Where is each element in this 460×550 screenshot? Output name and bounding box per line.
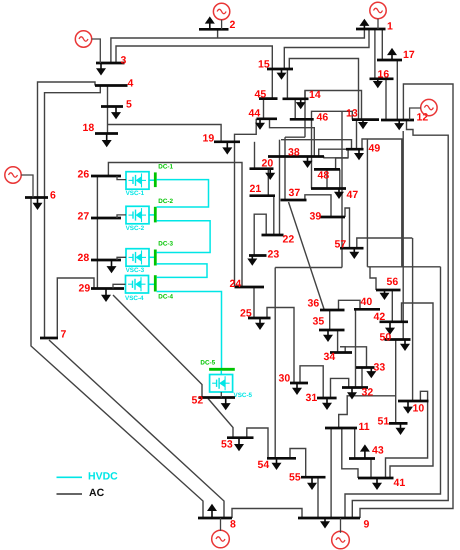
svg-text:VSC-5: VSC-5	[234, 392, 253, 399]
wire bus49 left link	[281, 140, 352, 150]
load arrow bus 49	[358, 149, 360, 154]
wire bus31-bus32	[331, 378, 349, 398]
svg-text:51: 51	[378, 416, 390, 428]
wire bus44-bus24	[235, 119, 257, 287]
converter VSC-1	[126, 172, 149, 190]
bus 33	[356, 366, 375, 369]
load arrow bus 14	[300, 99, 302, 103]
load arrow bus 18	[106, 134, 108, 142]
load arrow bus 50	[404, 340, 406, 345]
svg-text:31: 31	[306, 392, 318, 404]
svg-text:32: 32	[362, 387, 374, 399]
wire bus56 riser to node	[370, 267, 376, 290]
bus 2	[199, 28, 229, 31]
wire bus25-bus30	[267, 308, 294, 384]
load arrow bus 25	[259, 318, 261, 324]
hvdc link DC-3 to DC-4	[157, 264, 207, 278]
load arrow bus 30	[296, 383, 298, 389]
dc bus DC-5	[209, 368, 235, 371]
load arrow bus 17 (up)	[391, 54, 393, 60]
load arrow bus 9	[324, 518, 326, 522]
bus 48	[314, 168, 340, 171]
svg-text:46: 46	[317, 112, 329, 124]
bus 53	[227, 436, 254, 439]
wire bus12-bus16	[385, 79, 387, 120]
converter VSC-4	[126, 276, 149, 294]
generator G8	[212, 530, 230, 548]
svg-text:48: 48	[318, 170, 330, 182]
bus 44	[257, 117, 278, 120]
svg-text:VSC-1: VSC-1	[126, 190, 145, 197]
bus 12	[381, 119, 414, 122]
load arrow bus 31	[326, 398, 328, 404]
wire bus12-bus17	[396, 60, 398, 120]
load arrow bus 13	[362, 120, 364, 123]
svg-text:16: 16	[378, 69, 390, 81]
bus 19	[214, 140, 240, 143]
svg-text:4: 4	[128, 78, 134, 90]
load arrow bus 19	[226, 142, 228, 149]
hvdc link DC-1 to DC-2	[157, 180, 209, 207]
load arrow bus 20	[269, 169, 271, 174]
bus 38	[268, 155, 324, 158]
svg-text:44: 44	[249, 108, 261, 120]
svg-text:20: 20	[262, 158, 274, 170]
svg-text:9: 9	[364, 519, 370, 531]
svg-text:26: 26	[78, 169, 90, 181]
wire bus1-bus15	[284, 29, 369, 69]
bus 42	[380, 320, 409, 323]
bus 52	[199, 396, 236, 399]
wire bus41/bus9 lower-right wrap	[345, 267, 441, 518]
hvdc link DC-4 to DC-5	[157, 292, 222, 369]
wire bus8-bus9	[232, 509, 302, 519]
bus 15	[267, 68, 293, 71]
svg-text:53: 53	[221, 439, 233, 451]
wire bus37-bus38	[284, 137, 286, 200]
wire bus15-bus45	[271, 69, 273, 99]
svg-text:40: 40	[361, 296, 373, 308]
wire bus57 link to right vertical	[357, 238, 413, 248]
wire bus22-bus38 (long middle vertical)	[279, 140, 281, 235]
svg-text:45: 45	[255, 89, 267, 101]
wire bus10-bus41 (right wrap)	[386, 391, 428, 478]
bus 25	[248, 317, 271, 320]
svg-text:DC-3: DC-3	[158, 241, 173, 248]
load arrow bus 54	[276, 458, 278, 464]
svg-text:AC: AC	[89, 487, 105, 499]
generator G3	[75, 31, 91, 47]
wire bus21-bus22	[273, 196, 275, 235]
svg-text:6: 6	[50, 190, 56, 202]
wire bus29-bus52 diagonal	[113, 295, 202, 398]
wire bus44-bus45	[263, 99, 265, 119]
load arrow bus 38	[307, 157, 309, 162]
wire bus38-bus49 upper	[319, 149, 346, 156]
wire bus12 staircase to right vertical	[352, 120, 448, 518]
wire long middle link (bus13 elbow down to node)	[341, 111, 343, 267]
load arrow bus 33	[370, 368, 372, 373]
wire bus7-bus8 diagonal	[49, 340, 224, 518]
load arrow bus 8 (up)	[211, 510, 213, 518]
wire bus44-bus38	[270, 119, 315, 157]
wire VSC-5 to bus52 (AC)	[220, 392, 222, 398]
svg-text:13: 13	[346, 108, 358, 120]
svg-text:34: 34	[324, 351, 336, 363]
wire bus51-node to bus11 staircase	[339, 396, 396, 428]
svg-text:56: 56	[387, 276, 399, 288]
load arrow bus 3	[100, 63, 102, 69]
load arrow bus 16	[377, 79, 379, 82]
svg-text:19: 19	[203, 133, 215, 145]
svg-text:11: 11	[359, 421, 370, 433]
bus 50	[385, 338, 411, 341]
wire bus2 drop to tie	[217, 29, 219, 38]
wire bus24-bus25	[253, 287, 255, 318]
svg-text:1: 1	[387, 21, 393, 33]
bus 27	[91, 217, 121, 220]
bus 14	[283, 97, 309, 100]
wire VSC-2 to DC-2	[149, 214, 154, 216]
svg-text:DC-1: DC-1	[158, 164, 173, 171]
bus 51	[389, 422, 408, 425]
svg-text:38: 38	[288, 147, 300, 159]
svg-text:37: 37	[289, 187, 301, 199]
dc bus DC-4	[154, 275, 157, 291]
wire node run y267 left segment to bus54 riser	[275, 267, 342, 269]
load arrow bus 5	[115, 107, 117, 114]
generator G12	[421, 99, 437, 115]
load arrow bus 35	[327, 330, 329, 336]
svg-text:14: 14	[309, 89, 321, 101]
wire VSC-1 to DC-1	[149, 179, 154, 181]
bus 24	[235, 286, 265, 289]
generator G9	[332, 531, 350, 549]
bus 17	[377, 59, 402, 62]
svg-text:8: 8	[230, 519, 236, 531]
svg-text:30: 30	[279, 373, 291, 385]
wire bus26 to VSC-1 (AC)	[117, 176, 126, 180]
load arrow bus 52	[225, 398, 227, 405]
wire bus20-bus21	[267, 169, 269, 196]
converter VSC-2	[126, 206, 149, 224]
bus 29	[91, 287, 124, 290]
svg-text:3: 3	[121, 55, 127, 67]
wire bus4-bus7	[45, 86, 101, 339]
wire bus7-bus29	[57, 278, 94, 338]
wire bus47-bus48 second circuit	[339, 169, 341, 188]
wire bus33-bus34	[340, 347, 345, 353]
wire bus41-bus43	[370, 459, 372, 479]
bus 11	[325, 427, 357, 430]
svg-text:25: 25	[240, 308, 252, 320]
load arrow bus 10	[407, 401, 409, 408]
svg-text:21: 21	[250, 183, 262, 195]
load arrow bus 32	[351, 388, 353, 394]
load arrow bus 43 (up)	[364, 451, 366, 459]
svg-text:39: 39	[310, 211, 322, 223]
wire bus3-bus15	[116, 46, 272, 69]
wire DC-5 to VSC-5	[220, 371, 222, 375]
bus 22	[262, 234, 284, 237]
svg-text:47: 47	[347, 189, 359, 201]
bus 8	[198, 517, 232, 520]
wire bus14-bus15	[286, 69, 288, 99]
generator G6	[5, 167, 21, 183]
bus 13	[352, 118, 379, 121]
wire bus2-bus3 / bus1-bus2 tie (top horizontal run)	[111, 29, 365, 63]
load arrow bus 42	[389, 322, 391, 329]
wire bus49 right link descending	[362, 139, 402, 267]
wire bus9-bus11	[330, 428, 332, 518]
bus 1	[356, 28, 386, 31]
wire bus1-bus16	[374, 29, 376, 79]
svg-text:49: 49	[369, 143, 381, 155]
svg-text:42: 42	[374, 311, 386, 323]
svg-text:VSC-3: VSC-3	[126, 267, 145, 274]
bus 5	[101, 105, 123, 108]
load arrow bus 1 (up)	[363, 25, 365, 29]
wire bus36-bus40 bridge	[339, 300, 361, 310]
bus 40	[354, 308, 380, 311]
bus 37	[281, 199, 307, 202]
wire bus14-bus46	[294, 99, 296, 120]
load arrow bus 55	[311, 477, 313, 484]
legend AC line	[57, 493, 83, 495]
bus 7	[40, 337, 58, 340]
bus 36	[320, 309, 345, 312]
bus 57	[340, 247, 364, 250]
svg-text:2: 2	[230, 19, 236, 31]
wire bus32-bus33	[361, 368, 363, 388]
wire bus35-bus36	[329, 310, 331, 330]
svg-text:18: 18	[83, 122, 95, 134]
converter VSC-5	[210, 375, 233, 393]
bus 32	[342, 386, 368, 389]
svg-text:HVDC: HVDC	[88, 471, 118, 483]
svg-text:5: 5	[126, 99, 132, 111]
dc bus DC-1	[154, 172, 157, 187]
svg-text:24: 24	[230, 278, 242, 290]
load arrow bus 57	[353, 248, 355, 253]
svg-text:50: 50	[380, 332, 392, 344]
wire VSC-3 to DC-3	[149, 256, 154, 258]
wire bus4-bus5-bus18 riser	[107, 86, 109, 134]
legend HVDC line	[57, 476, 83, 478]
wire bus46-bus47	[311, 119, 313, 188]
wire bus27 to VSC-2 (AC)	[117, 215, 126, 218]
wire bus46-bus13 upper link	[312, 111, 353, 119]
wire bus29 to VSC-4 (AC)	[113, 284, 126, 288]
svg-text:43: 43	[372, 445, 384, 457]
svg-text:35: 35	[313, 316, 325, 328]
wire bus18-bus19	[108, 125, 222, 142]
svg-text:22: 22	[283, 234, 295, 246]
bus 46	[290, 118, 314, 121]
bus 18	[95, 132, 118, 135]
wire VSC-4 to DC-4	[149, 283, 155, 285]
load arrow bus 29	[105, 289, 107, 296]
wire bus13-bus49	[356, 120, 358, 150]
load arrow bus 51	[400, 423, 402, 428]
bus 54	[267, 457, 296, 460]
wire bus56-bus42	[391, 290, 393, 322]
load arrow bus 44	[259, 119, 261, 124]
load arrow bus 41	[376, 478, 378, 484]
wire bus14 link right	[304, 91, 306, 99]
svg-text:DC-4: DC-4	[158, 293, 173, 300]
svg-text:57: 57	[335, 239, 347, 251]
wire bus4-bus6	[38, 82, 96, 198]
wire node run y266 to bus57 riser	[367, 266, 440, 268]
svg-text:DC-5: DC-5	[200, 360, 215, 367]
wire bus34-bus35	[337, 330, 339, 353]
svg-text:23: 23	[268, 249, 280, 261]
load arrow bus 2 (up)	[209, 23, 211, 30]
svg-text:52: 52	[192, 395, 204, 407]
svg-text:36: 36	[308, 298, 320, 310]
svg-text:55: 55	[289, 472, 301, 484]
svg-text:VSC-4: VSC-4	[125, 295, 144, 302]
generator G1	[370, 2, 386, 18]
wire bus28 to VSC-3 (AC)	[117, 257, 126, 260]
svg-text:28: 28	[78, 252, 90, 264]
generator G2	[213, 3, 229, 19]
wire bus37-bus39	[305, 195, 331, 217]
wire bus39-bus57	[345, 208, 350, 248]
bus 30	[290, 382, 308, 385]
bus 23	[249, 254, 267, 257]
bus 26	[91, 175, 121, 178]
bus 9	[298, 517, 360, 520]
bus 6	[25, 196, 48, 199]
wire right vertical to bus10	[412, 238, 414, 401]
wire bus32 riser to bus36/40	[355, 310, 357, 388]
wire bus13-bus14	[305, 91, 362, 138]
load arrow bus 28	[111, 260, 113, 267]
wire bus26-bus24 (long link)	[108, 163, 242, 288]
wire bus22-bus23	[254, 214, 266, 255]
bus 10	[398, 400, 429, 403]
bus 20	[250, 167, 274, 170]
load arrow bus 53	[238, 438, 240, 445]
bus 56	[376, 289, 401, 292]
load arrow bus 15	[281, 69, 283, 74]
svg-text:41: 41	[394, 477, 406, 489]
bus 49	[346, 148, 364, 151]
bus 16	[370, 77, 394, 80]
load arrow bus 47	[338, 189, 340, 193]
wire bus26-27-28-29 chain	[96, 176, 98, 289]
wire bus1-bus17	[381, 29, 383, 60]
wire bus19-bus20	[254, 142, 256, 169]
dc bus DC-3	[154, 250, 157, 266]
load arrow bus 6	[37, 198, 39, 204]
bus 55	[301, 476, 326, 479]
wire bus47-bus48	[326, 169, 328, 188]
svg-text:29: 29	[79, 283, 91, 295]
bus 4	[95, 84, 128, 87]
wire bus11-bus43	[354, 428, 356, 459]
wire bus6-bus8 diagonal	[31, 198, 203, 519]
load arrow bus 56	[384, 290, 386, 294]
svg-text:7: 7	[61, 329, 67, 341]
wire bus48 link up	[336, 158, 348, 169]
wire bus9-bus12 (right outer loop)	[360, 84, 453, 518]
wire bus37-bus36 diagonal	[289, 202, 325, 309]
wire bus38 upper-left corner link	[285, 136, 305, 138]
bus 34	[330, 351, 352, 354]
bus 28	[91, 259, 121, 262]
load arrow bus 23	[251, 256, 253, 260]
wire bus42 link to right vertical	[390, 303, 433, 478]
hvdc link DC-2 to DC-3	[157, 221, 211, 253]
svg-text:VSC-2: VSC-2	[126, 225, 145, 232]
bus 3	[96, 62, 125, 65]
dc bus DC-2	[154, 207, 157, 223]
bus 21	[250, 194, 276, 197]
wire bus53-bus54	[247, 428, 268, 458]
bus 31	[317, 397, 337, 400]
svg-text:DC-2: DC-2	[158, 198, 173, 205]
converter VSC-3	[126, 249, 149, 267]
svg-text:17: 17	[403, 49, 415, 61]
bus 41	[358, 477, 394, 480]
wire bus54-bus55	[290, 449, 306, 478]
bus 43	[349, 457, 375, 460]
wire bus52-bus53 diagonal	[208, 399, 233, 438]
svg-text:54: 54	[258, 459, 270, 471]
svg-text:27: 27	[78, 211, 90, 223]
svg-text:15: 15	[258, 59, 270, 71]
wire bus38-bus49 lower	[324, 149, 348, 158]
bus 47	[311, 187, 346, 190]
load arrow bus 12	[398, 120, 400, 124]
bus 45	[259, 97, 278, 100]
wire bus50-bus51	[395, 340, 397, 424]
bus 39	[320, 216, 345, 219]
wire bus30-bus31	[300, 366, 323, 398]
bus 35	[319, 329, 345, 332]
wire bus55-bus9	[317, 477, 319, 518]
wire bus11-bus41	[342, 428, 358, 478]
wire bus50 riser from top	[402, 131, 404, 340]
wire bus13-bus15	[289, 59, 358, 120]
svg-text:10: 10	[413, 403, 425, 415]
